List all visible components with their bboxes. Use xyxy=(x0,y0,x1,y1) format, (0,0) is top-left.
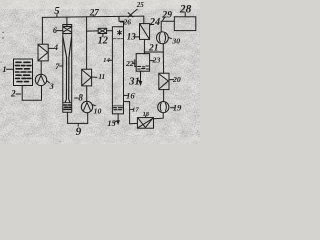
svg-text:25: 25 xyxy=(136,1,145,9)
node 13 label dash xyxy=(135,36,139,38)
svg-text:3: 3 xyxy=(49,82,54,91)
node 24 label tick xyxy=(150,24,152,25)
svg-text:9: 9 xyxy=(76,126,82,138)
svg-text:22: 22 xyxy=(125,59,134,68)
svg-text:31: 31 xyxy=(128,76,140,88)
svg-text:12: 12 xyxy=(98,35,108,46)
column C5 shell xyxy=(63,24,72,26)
node 1 feed dash xyxy=(7,68,14,70)
node 6 label dash xyxy=(57,30,62,32)
svg-text:27: 27 xyxy=(89,8,100,18)
wire pump10 outlet tick xyxy=(93,104,96,107)
wire fan30 to box28 xyxy=(161,21,174,32)
column C5 liquid level xyxy=(63,102,71,104)
node 8 label dash xyxy=(75,97,78,99)
wire E20 to fan19 xyxy=(163,90,165,102)
heat-exchanger E4 xyxy=(38,44,48,61)
tank T1 xyxy=(14,59,33,86)
node 30 label tick xyxy=(169,37,172,38)
scan specks xyxy=(1,32,199,143)
wire column C5 bottoms U-pipe xyxy=(68,112,88,123)
svg-text:8: 8 xyxy=(78,93,83,103)
valve V12 xyxy=(98,28,106,33)
bin 18 xyxy=(137,118,153,129)
column C10 liquid level xyxy=(113,105,124,107)
fan 19 xyxy=(158,102,169,113)
node 19 label dash xyxy=(171,107,175,109)
node 26 label dash xyxy=(120,21,124,23)
svg-text:28: 28 xyxy=(179,3,192,15)
node 25 label tick xyxy=(134,9,138,12)
tank T1 packing dashes xyxy=(16,62,32,81)
node 18 label tick xyxy=(145,116,147,118)
wire pump3 to HX4 xyxy=(40,61,42,74)
column C10 shell xyxy=(112,21,123,114)
node 22 label dash xyxy=(133,62,135,64)
svg-text:5: 5 xyxy=(54,5,60,17)
column C10 tray dashes xyxy=(113,38,123,40)
node 20 label dash xyxy=(170,79,174,81)
wire valve12 to column C10 xyxy=(107,30,113,32)
fan 30 xyxy=(157,32,169,44)
svg-text:1: 1 xyxy=(2,64,6,74)
valve V25 on main line xyxy=(128,13,133,17)
node 31 label dash xyxy=(138,80,140,82)
node 7 label dash xyxy=(60,65,63,67)
column C5 distributor line xyxy=(63,33,72,35)
wire feed 22 into vessel 23 xyxy=(135,60,136,67)
node 3 label tick xyxy=(47,81,50,83)
svg-text:13: 13 xyxy=(127,31,136,41)
svg-text:16: 16 xyxy=(126,91,135,101)
svg-text:24: 24 xyxy=(149,17,160,28)
wire line 21 xyxy=(144,51,163,53)
svg-text:23: 23 xyxy=(152,56,161,65)
svg-text:2: 2 xyxy=(10,89,16,99)
node 12 label tick xyxy=(102,34,104,36)
svg-text:30: 30 xyxy=(171,37,180,46)
pump P3 xyxy=(35,74,46,85)
svg-text:14: 14 xyxy=(103,57,110,64)
heat-exchanger E24 xyxy=(140,24,150,40)
node 16 label dash xyxy=(124,94,127,96)
svg-text:17: 17 xyxy=(132,106,139,113)
node 15 label dash xyxy=(114,121,117,122)
vessel V23 xyxy=(136,54,149,72)
node 14 label dash xyxy=(110,59,113,61)
svg-text:4: 4 xyxy=(53,43,58,52)
node 23 label dash xyxy=(150,60,153,62)
node 5 label tick xyxy=(56,15,58,18)
box 28 xyxy=(174,17,196,31)
node 17 label dash xyxy=(131,108,133,110)
paper background xyxy=(0,0,200,144)
wire fan19 to bin18 xyxy=(154,113,164,119)
column C5 spray X xyxy=(63,26,72,32)
svg-text:10: 10 xyxy=(94,106,102,115)
node 9 label tick xyxy=(77,124,79,127)
heat-exchanger E8 xyxy=(82,69,92,86)
wire tank outlet xyxy=(22,86,41,101)
wire vessel 23 bottoms arrow 31 xyxy=(140,71,142,81)
wire main to column C10 top xyxy=(119,17,124,22)
wire HX4 to main line xyxy=(41,17,43,44)
svg-text:26: 26 xyxy=(122,17,131,26)
svg-text:20: 20 xyxy=(172,75,181,84)
svg-text:29: 29 xyxy=(161,9,172,20)
wire main overhead line xyxy=(42,16,143,17)
node 4 label dash xyxy=(49,47,54,49)
node 29 label tick xyxy=(163,17,165,20)
node 11 label dash xyxy=(92,76,97,78)
svg-text:21: 21 xyxy=(148,43,159,53)
column C10 sprinkler xyxy=(118,30,122,35)
wire main line drop to E24 xyxy=(143,16,145,24)
svg-text:15: 15 xyxy=(107,119,115,128)
node 28 label tick xyxy=(184,12,186,16)
wire E24 to vessel 23 xyxy=(143,39,145,53)
svg-text:11: 11 xyxy=(98,73,105,81)
wire main to HX8 drop leg xyxy=(86,17,88,69)
wire E8 to pump10 xyxy=(86,86,88,102)
wire fan30 down through line21 to E20 xyxy=(162,44,164,73)
svg-text:19: 19 xyxy=(173,104,182,113)
column C5 venturi funnel xyxy=(63,37,67,102)
wire column C10 side draw to bin18 xyxy=(124,102,138,124)
wire inlet column C5 xyxy=(66,17,68,27)
node 2 label dash xyxy=(16,93,21,95)
node 27 label tick xyxy=(93,15,95,17)
wire branch to valve 12 xyxy=(87,30,99,32)
heat-exchanger E20 xyxy=(159,73,169,89)
wire column C10 bottoms arrow xyxy=(117,114,119,121)
pump P10 xyxy=(81,101,92,112)
svg-text:18: 18 xyxy=(143,111,150,118)
